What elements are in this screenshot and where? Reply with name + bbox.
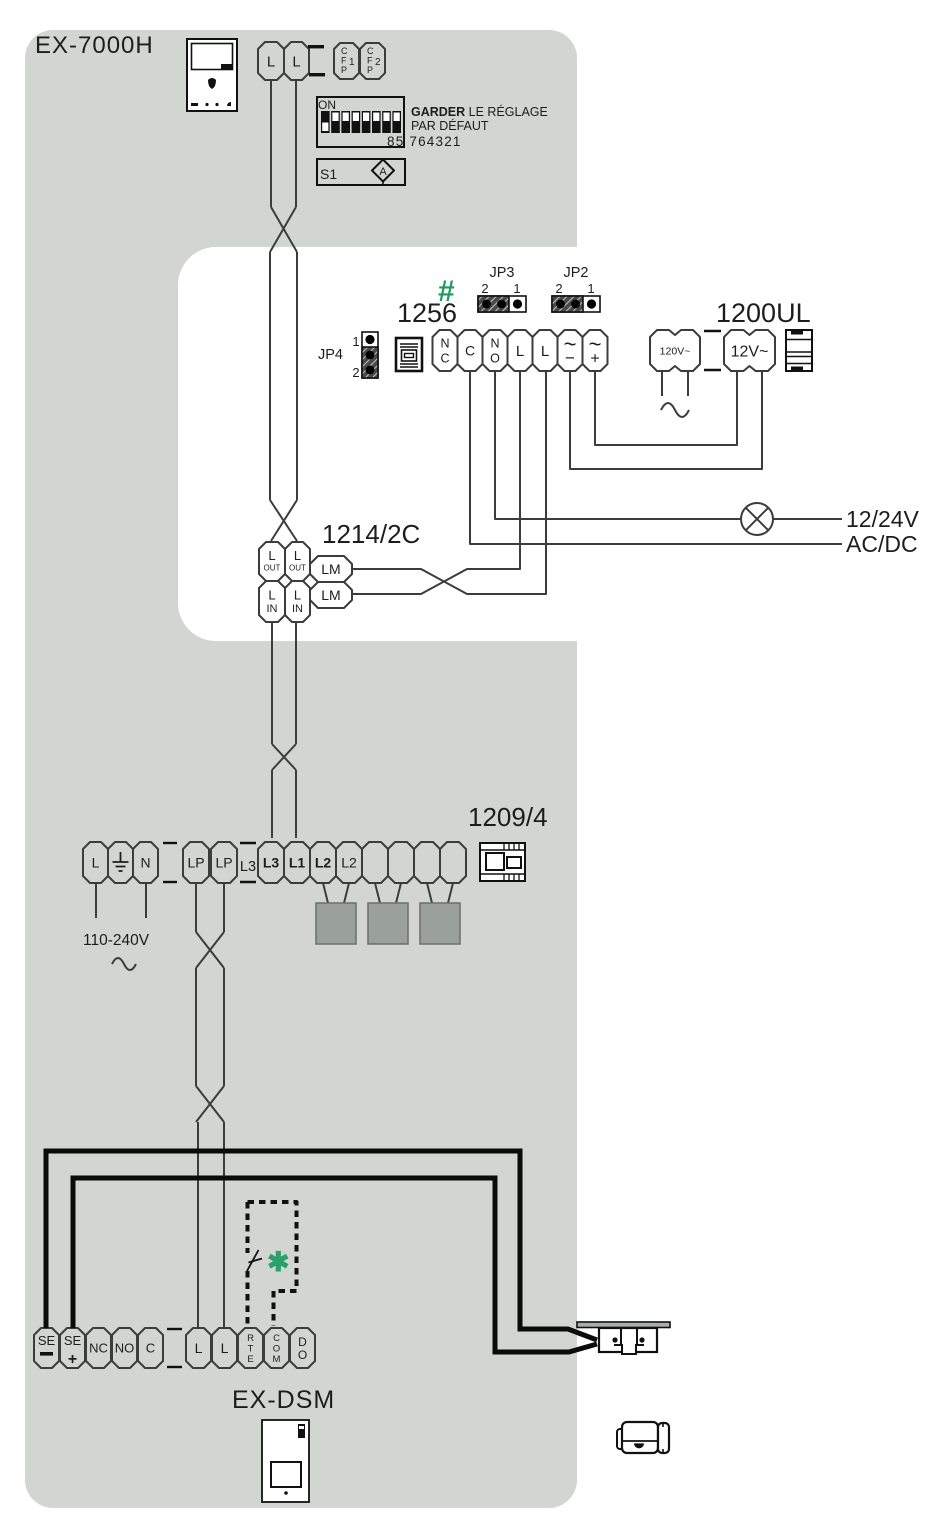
wire: LP pair right lower [223,1122,225,1328]
svg-text:+: + [68,1351,77,1368]
label PAR DÉFAUT [411,118,489,133]
wire: LP cross2 r-l [196,1086,224,1122]
wire: LM lower to cross [352,371,520,594]
svg-text:1256: 1256 [397,298,457,328]
terminal SE- (EX-DSM) [34,1328,59,1368]
terminal COM (EX-DSM) [264,1328,289,1368]
terminal L IN right (1214/2C) [285,581,310,622]
jumper JP4 (cap on 2, vertical) [318,332,378,380]
power module icon (1209/4) [480,843,525,881]
wire: LP pair left lower [197,1122,199,1328]
svg-text:L: L [195,1340,203,1356]
terminal L OUT left (1214/2C) [259,542,285,581]
svg-text:✱: ✱ [267,1247,290,1277]
svg-text:L3: L3 [240,859,256,875]
jumper JP3 (cap on 2) [478,265,526,312]
terminal spare1 (1209/4) [362,842,388,883]
wire: mid pair right lower [295,770,297,838]
wire: LP cross1 l-r [196,932,224,968]
terminal LP right (1209/4) [211,842,237,883]
wire: thick SE- to strike [46,1151,597,1340]
terminal L left (EX-DSM) [186,1328,211,1368]
terminal AC-minus (1256) [558,330,583,371]
label 1200UL [716,298,811,328]
jumper JP2 (cap on 2) [552,265,600,312]
svg-text:SE: SE [64,1333,82,1348]
svg-text:N: N [440,337,449,351]
terminal L1 bold (1209/4) [284,842,310,883]
terminal RTE (EX-DSM) [238,1328,263,1368]
svg-text:85 764321: 85 764321 [387,134,462,149]
wire: dashed box left upper [246,1202,250,1253]
wire: dashed box left lower to RTE [246,1271,250,1326]
svg-text:P: P [367,65,373,75]
svg-text:C: C [146,1341,155,1356]
svg-text:R: R [247,1333,254,1344]
svg-text:1200UL: 1200UL [716,298,811,328]
DIP switch numbers 85 764321 [387,134,462,149]
wire: C to AC/DC label [470,371,842,544]
monitor icon EX-7000H [187,39,237,111]
wire: lens right side [296,252,298,500]
svg-text:JP2: JP2 [564,265,589,281]
svg-text:1: 1 [352,334,359,349]
svg-text:12/24V: 12/24V [846,506,920,532]
svg-text:E: E [247,1354,253,1365]
lock cylinder icon [617,1422,669,1453]
svg-text:L1: L1 [289,855,306,871]
terminal L2 (1209/4) [336,842,362,883]
wire: mains N down [145,883,147,918]
dash link after N upper [163,842,177,844]
wire: mid pair left lower [271,770,273,838]
green hash mark # [438,275,455,308]
terminal L1 (1256) [508,330,533,371]
connector CF1P [334,43,359,79]
call button box 3 [420,903,460,944]
switch symbol (exit button) [247,1250,262,1271]
svg-text:L: L [92,855,100,871]
svg-text:OUT: OUT [289,563,306,572]
svg-text:O: O [298,1348,307,1362]
svg-text:1: 1 [587,281,594,296]
terminal N (mains 1209/4) [133,842,158,883]
svg-text:LM: LM [321,561,340,577]
label EX-DSM [232,1386,335,1414]
svg-text:LP: LP [215,855,232,871]
wire: LM upper to cross [352,371,546,594]
terminal C (EX-DSM) [138,1328,163,1368]
svg-text:PAR DÉFAUT: PAR DÉFAUT [411,118,489,133]
AC sine symbol (120V) [661,403,689,417]
DIP switch S (8 positions, pos1 down) [317,97,404,147]
connector CF2P [360,43,385,79]
wire: lamp to 12/24V label [773,518,842,520]
svg-text:1: 1 [513,281,520,296]
electric strike symbol [577,1322,670,1355]
terminal 12V~ (transformer secondary) [724,330,775,371]
wire: NO to lamp 12/24V [495,371,741,519]
wire: pair right from L to first cross [295,80,297,207]
svg-text:IN: IN [267,603,278,615]
svg-text:LP: LP [187,855,204,871]
svg-text:−: − [565,349,575,368]
svg-text:C: C [440,352,449,366]
svg-text:S1: S1 [320,166,337,182]
label GARDER LE RÉGLAGE [411,104,548,119]
svg-text:2: 2 [375,57,381,68]
wire: 120V pin right [687,371,689,396]
svg-text:N: N [490,337,499,351]
svg-text:IN: IN [292,603,303,615]
wire: lens left side [269,252,271,500]
dash link lower (120V-12V) [704,369,721,371]
terminal 120V~ (transformer primary) [650,330,700,371]
svg-text:C: C [341,46,348,56]
svg-text:NC: NC [89,1341,108,1356]
svg-text:F: F [341,56,347,66]
terminal NC (1256) [433,330,458,371]
wire: spare3 to button3 [427,883,432,903]
panel: main gray background board [25,30,577,1508]
terminal L left (EX-7000H) [258,42,284,80]
wire: LP cross1 r-l [196,932,224,968]
terminal spare2 (1209/4) [388,842,414,883]
wire: AC- to 12V right pin [570,371,762,469]
wire: L2a to button1 [323,883,328,903]
svg-text:EX-7000H: EX-7000H [35,32,154,59]
svg-text:L: L [294,548,301,563]
wire: pair left from L to first cross [270,80,272,207]
svg-text:F: F [367,56,373,66]
svg-text:L: L [294,588,301,603]
dash mark lower (CF link) [309,73,325,76]
call button box 1 [316,903,356,944]
label 12/24V [846,506,920,532]
svg-text:2: 2 [555,281,562,296]
terminal NC (EX-DSM) [86,1328,111,1368]
EX-DSM module icon [262,1420,309,1502]
terminal SE+ (EX-DSM) [60,1328,85,1368]
svg-text:C: C [273,1333,280,1344]
svg-text:A: A [379,166,387,178]
call button box 2 [368,903,408,944]
svg-text:L2: L2 [315,855,332,871]
wire: LP lens left [195,968,197,1086]
terminal spare3 (1209/4) [414,842,440,883]
svg-text:12V~: 12V~ [731,343,769,360]
svg-text:OUT: OUT [264,563,281,572]
svg-text:C: C [465,343,475,359]
wire: mid cross left-to-right [272,744,296,770]
wire: spare4 to button3 [448,883,453,903]
wire: L2b to button1 [344,883,349,903]
terminal AC-plus (1256) [583,330,608,371]
svg-text:NO: NO [115,1341,135,1356]
dash gap bottom row lower [167,1366,182,1368]
svg-text:L: L [268,548,275,563]
wire: dashed box top+right with step [248,1202,297,1326]
svg-text:N: N [140,855,150,871]
svg-text:D: D [298,1335,307,1349]
svg-text:EX-DSM: EX-DSM [232,1386,335,1414]
terminal spare4 (1209/4) [440,842,466,883]
panel: white inset 1256 relay area [178,247,926,641]
terminal L3 bold (1209/4) [258,842,284,883]
svg-text:L: L [268,588,275,603]
svg-text:110-240V: 110-240V [83,932,150,949]
relay module icon (1256) [396,338,422,371]
transformer 1200UL DIN icon [786,330,812,371]
dash gap with L3 label [240,843,256,882]
wire: LP cross2 l-r [196,1086,224,1122]
dash link upper (120V-12V) [704,330,721,332]
wire: mid pair right [295,622,297,744]
wire: cross X2 right-to-left [271,500,297,541]
svg-text:2: 2 [481,281,488,296]
terminal L OUT right (1214/2C) [285,542,310,581]
svg-text:L: L [267,53,275,70]
svg-text:O: O [273,1343,280,1354]
svg-text:JP4: JP4 [318,347,343,363]
label EX-7000H [35,32,154,59]
terminal L2 (1256) [533,330,558,371]
wire: spare1 to button2 [375,883,380,903]
svg-text:O: O [490,352,500,366]
terminal L IN left (1214/2C) [259,581,285,622]
svg-text:L: L [541,343,549,360]
terminal L2 bold (1209/4) [310,842,336,883]
svg-text:GARDER LE RÉGLAGE: GARDER LE RÉGLAGE [411,104,548,119]
svg-text:ON: ON [318,98,336,112]
svg-text:M: M [273,1354,281,1365]
svg-text:SE: SE [38,1333,56,1348]
switch S1 box with key symbol [317,159,405,185]
terminal L right (EX-7000H) [284,42,309,80]
wire: mains L down [95,883,97,918]
terminal L right (EX-DSM) [212,1328,237,1368]
svg-text:AC/DC: AC/DC [846,531,918,557]
label 1256 [397,298,457,328]
terminal DO (EX-DSM) [290,1328,315,1368]
wire: mid cross right-to-left [272,744,296,770]
svg-text:L2: L2 [341,855,357,871]
svg-text:1214/2C: 1214/2C [322,519,420,549]
terminal LM lower (1214/2C) [310,582,352,608]
label 1209/4 [468,802,548,832]
terminal NO (EX-DSM) [112,1328,137,1368]
AC sine symbol (mains) [112,958,136,970]
svg-text:L: L [516,343,524,360]
green asterisk [267,1247,290,1277]
wire: LP lens right [223,968,225,1086]
dash gap bottom row upper [167,1328,182,1330]
wire: spare2 to button2 [396,883,401,903]
lamp symbol 12/24V [741,503,773,535]
svg-text:LM: LM [321,587,340,603]
terminal LP left (1209/4) [183,842,209,883]
wire: cross X1 left-to-right [271,207,297,252]
svg-text:L: L [221,1340,229,1356]
svg-text:L3: L3 [263,855,280,871]
terminal NO (1256) [483,330,508,371]
wire: mid pair left [271,622,273,744]
terminal L (mains 1209/4) [83,842,108,883]
svg-text:1: 1 [349,57,355,68]
wire: cross X1 right-to-left [270,207,296,252]
wire: cross X2 left-to-right [270,500,297,541]
label AC/DC [846,531,918,557]
svg-text:P: P [341,65,347,75]
wire: 120V pin left [661,371,663,396]
wire: LP pair left [195,883,197,932]
wire: LP pair right [223,883,225,932]
svg-text:2: 2 [352,365,359,380]
svg-text:L: L [292,53,300,70]
terminal earth (1209/4) [108,842,133,883]
svg-text:JP3: JP3 [490,265,515,281]
wire: thick SE+ to strike [73,1178,597,1352]
terminal LM upper (1214/2C) [310,556,352,582]
svg-text:+: + [590,350,599,367]
wire: AC+ to 12V left pin [595,371,737,445]
svg-text:1209/4: 1209/4 [468,802,548,832]
dash link after N lower [163,881,177,883]
svg-text:C: C [367,46,374,56]
terminal C (1256) [458,330,483,371]
dash mark upper (CF link) [308,45,324,48]
svg-text:120V~: 120V~ [660,345,691,357]
svg-text:T: T [248,1343,254,1354]
label 1214/2C [322,519,420,549]
label 110-240V [83,932,150,949]
